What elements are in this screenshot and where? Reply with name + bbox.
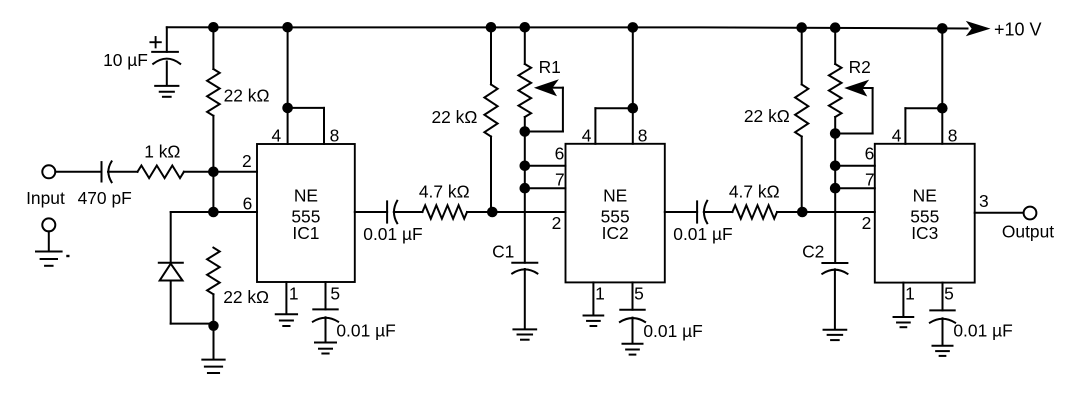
svg-text:1: 1 xyxy=(289,284,299,304)
svg-text:5: 5 xyxy=(634,284,644,304)
svg-text:1: 1 xyxy=(595,284,605,304)
svg-text:0.01 µF: 0.01 µF xyxy=(673,224,732,244)
svg-text:8: 8 xyxy=(948,125,958,145)
svg-text:0.01 µF: 0.01 µF xyxy=(953,321,1012,341)
svg-text:8: 8 xyxy=(638,125,648,145)
svg-text:IC1: IC1 xyxy=(292,223,319,243)
svg-text:8: 8 xyxy=(330,126,340,146)
svg-text:6: 6 xyxy=(555,143,565,163)
svg-text:22 kΩ: 22 kΩ xyxy=(744,106,790,126)
svg-text:22 kΩ: 22 kΩ xyxy=(224,86,270,106)
svg-text:6: 6 xyxy=(865,143,875,163)
svg-text:2: 2 xyxy=(242,151,252,171)
svg-text:2: 2 xyxy=(552,213,562,233)
svg-text:0.01 µF: 0.01 µF xyxy=(643,321,702,341)
svg-text:10 µF: 10 µF xyxy=(103,50,148,70)
svg-text:IC3: IC3 xyxy=(911,223,938,243)
svg-text:4.7 kΩ: 4.7 kΩ xyxy=(729,182,780,202)
svg-text:5: 5 xyxy=(330,284,340,304)
svg-text:22 kΩ: 22 kΩ xyxy=(223,287,269,307)
svg-text:+10 V: +10 V xyxy=(994,20,1042,40)
svg-text:2: 2 xyxy=(862,213,872,233)
svg-text:NE: NE xyxy=(294,185,318,205)
svg-text:4: 4 xyxy=(582,125,592,145)
svg-text:0.01 µF: 0.01 µF xyxy=(363,224,422,244)
svg-text:4: 4 xyxy=(271,126,281,146)
svg-text:IC2: IC2 xyxy=(602,223,629,243)
svg-text:Output: Output xyxy=(1002,222,1054,242)
svg-text:4: 4 xyxy=(892,125,902,145)
svg-text:C2: C2 xyxy=(802,242,824,262)
svg-text:1 kΩ: 1 kΩ xyxy=(144,141,180,161)
svg-text:6: 6 xyxy=(243,193,253,213)
svg-text:470 pF: 470 pF xyxy=(78,188,132,208)
svg-text:4.7 kΩ: 4.7 kΩ xyxy=(419,182,470,202)
svg-text:5: 5 xyxy=(944,284,954,304)
svg-text:1: 1 xyxy=(905,284,915,304)
svg-text:0.01 µF: 0.01 µF xyxy=(336,321,395,341)
svg-text:7: 7 xyxy=(865,169,875,189)
svg-text:R2: R2 xyxy=(849,57,871,77)
svg-text:NE: NE xyxy=(913,185,937,205)
svg-text:Input: Input xyxy=(26,188,65,208)
svg-text:3: 3 xyxy=(979,191,989,211)
svg-text:R1: R1 xyxy=(539,57,561,77)
svg-text:C1: C1 xyxy=(492,242,514,262)
svg-text:NE: NE xyxy=(603,185,627,205)
svg-text:22 kΩ: 22 kΩ xyxy=(432,107,478,127)
svg-text:7: 7 xyxy=(555,169,565,189)
